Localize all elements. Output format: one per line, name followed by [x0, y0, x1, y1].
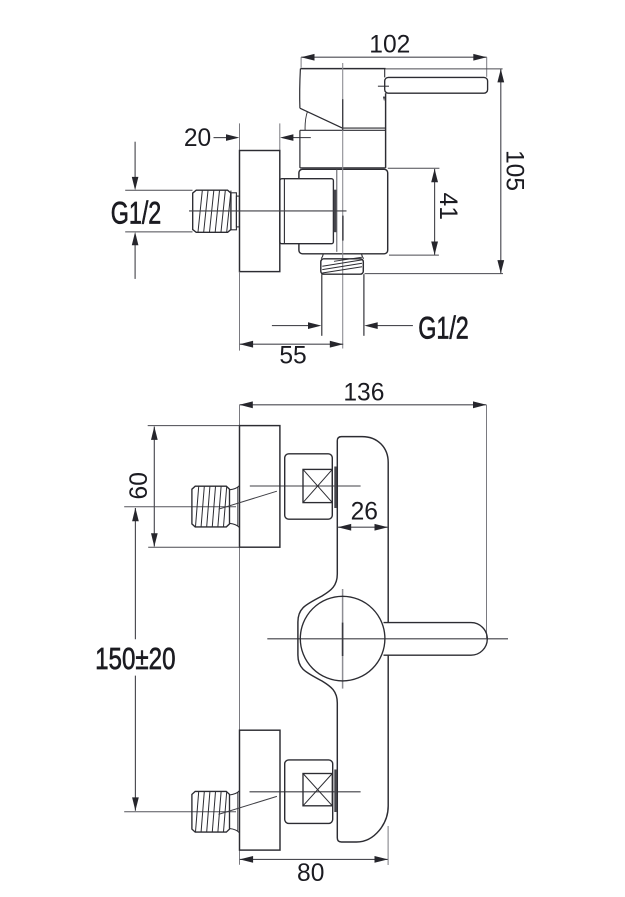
dimension 55 [240, 343, 344, 345]
bottom outlet neck [321, 254, 323, 259]
svg-text:150±20: 150±20 [95, 641, 175, 676]
left extension line full height [239, 547, 241, 730]
wall plate side view [240, 151, 280, 272]
outlet pipe [321, 274, 323, 336]
svg-text:60: 60 [126, 472, 153, 499]
dimension G1/2 right [272, 325, 309, 327]
svg-text:G1/2: G1/2 [418, 310, 469, 345]
connection box through plate [280, 179, 334, 244]
vertical centerline (side view) [342, 63, 344, 349]
dimension 60 [148, 425, 240, 427]
cartridge cap (side view) [300, 68, 385, 70]
horizontal centerline (side view) [189, 210, 347, 212]
fitting step rings [231, 193, 236, 230]
bottom outlet thread ring [321, 259, 364, 274]
upper plug flare to plate [230, 486, 240, 490]
svg-text:102: 102 [369, 32, 410, 59]
seal bar [334, 190, 337, 233]
dimension 41 [388, 167, 440, 169]
dimension 26 [338, 526, 388, 528]
svg-text:26: 26 [351, 498, 378, 525]
upper seal bar [334, 467, 337, 509]
lower X-box [303, 774, 332, 806]
front view fitting centerlines [250, 485, 361, 487]
dimension 136 [239, 404, 486, 406]
G1/2 threaded inlet (side view) [193, 190, 231, 232]
svg-text:80: 80 [297, 860, 324, 887]
dimension 20 [214, 137, 228, 139]
lever front view [384, 623, 488, 656]
dimension 80 [240, 858, 388, 860]
upper X-box [303, 469, 332, 502]
lower seal bar [334, 770, 337, 813]
upper wall plate front view [240, 426, 280, 548]
dimension 150 plus-minus 20 [134, 508, 136, 639]
lever handle (side view) [384, 69, 386, 78]
dimension 105 [500, 69, 502, 274]
pivot cross mark [378, 85, 389, 87]
svg-text:G1/2: G1/2 [111, 195, 162, 230]
cartridge dome circle [300, 596, 385, 681]
upper leader line [219, 491, 277, 509]
svg-text:41: 41 [434, 193, 461, 220]
svg-text:20: 20 [184, 125, 211, 152]
lower plug flare to plate [230, 791, 240, 795]
dimension 102 [301, 56, 487, 58]
lower union nut [285, 760, 333, 824]
lower threaded plug front view [192, 791, 230, 832]
svg-text:136: 136 [343, 380, 384, 407]
valve body block (side view) [299, 169, 388, 254]
svg-text:105: 105 [500, 150, 527, 191]
lever swing arc [305, 112, 307, 131]
svg-text:55: 55 [279, 343, 306, 370]
extension line below plate to 55 dim [239, 272, 241, 351]
upper threaded plug front view [192, 486, 230, 527]
faucet body front view outline [298, 437, 388, 842]
upper union nut [285, 454, 333, 519]
lower wall plate front view [240, 730, 281, 850]
lower leader line [219, 796, 277, 814]
dimension G1/2 left [125, 189, 192, 191]
small arrow mark below lever [383, 97, 385, 102]
